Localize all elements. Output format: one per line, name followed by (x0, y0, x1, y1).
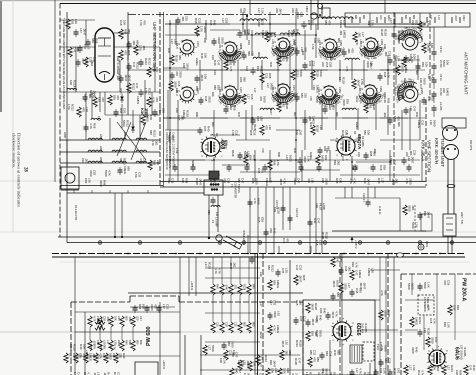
svg-text:5600: 5600 (422, 78, 426, 85)
svg-text:1.5K: 1.5K (293, 40, 297, 46)
svg-text:CHANNEL 2 DETENT POSITION.: CHANNEL 2 DETENT POSITION. (171, 132, 174, 169)
svg-text:82K: 82K (456, 305, 460, 310)
svg-text:470: 470 (92, 344, 96, 349)
svg-text:C47: C47 (413, 106, 417, 112)
svg-text:L30: L30 (274, 368, 278, 373)
svg-text:C82: C82 (338, 178, 342, 184)
svg-text:5600: 5600 (288, 155, 292, 162)
svg-text:R212: R212 (264, 355, 268, 362)
svg-text:R40: R40 (273, 228, 277, 234)
svg-text:4.7K: 4.7K (349, 178, 353, 184)
svg-text:C18: C18 (412, 150, 416, 156)
svg-text:.001: .001 (384, 51, 388, 57)
svg-text:1MEG: 1MEG (123, 166, 127, 175)
svg-text:220: 220 (275, 8, 279, 13)
svg-text:L30: L30 (383, 98, 387, 103)
svg-text:R128: R128 (185, 110, 189, 117)
svg-text:C18: C18 (315, 240, 319, 246)
svg-text:470: 470 (285, 238, 289, 243)
svg-text:C15: C15 (234, 130, 238, 136)
svg-text:3300: 3300 (397, 30, 401, 37)
svg-text:R40: R40 (79, 344, 83, 350)
svg-text:L30: L30 (319, 125, 323, 130)
svg-text:4.7K: 4.7K (426, 305, 430, 311)
svg-text:C15: C15 (213, 70, 217, 75)
svg-text:R212: R212 (152, 130, 156, 137)
svg-text:C15: C15 (308, 61, 312, 67)
svg-text:220: 220 (393, 56, 397, 61)
svg-text:5600: 5600 (423, 282, 427, 289)
svg-text:C82: C82 (272, 300, 276, 306)
svg-text:4.7K: 4.7K (107, 170, 111, 176)
svg-text:82K: 82K (158, 108, 162, 113)
svg-text:C47: C47 (419, 84, 423, 89)
svg-text:5600: 5600 (254, 178, 258, 185)
svg-text:R128: R128 (341, 77, 345, 84)
svg-text:R40: R40 (401, 30, 405, 36)
svg-text:6DE6: 6DE6 (355, 323, 361, 336)
svg-text:220: 220 (156, 160, 160, 165)
svg-text:10K: 10K (366, 130, 370, 135)
svg-text:5600: 5600 (145, 115, 149, 122)
svg-text:R128: R128 (318, 96, 322, 103)
svg-text:L30: L30 (409, 106, 413, 111)
svg-text:1MEG: 1MEG (195, 58, 199, 66)
svg-text:C18: C18 (245, 66, 249, 71)
svg-text:1.5K: 1.5K (412, 365, 416, 371)
svg-text:3300: 3300 (185, 63, 189, 70)
svg-text:L30: L30 (407, 156, 411, 161)
svg-text:VHF SECTION: VHF SECTION (426, 140, 432, 173)
svg-text:680: 680 (293, 112, 297, 117)
svg-text:C3 10: C3 10 (439, 74, 442, 81)
svg-text:82K: 82K (269, 360, 273, 365)
svg-text:82K: 82K (112, 95, 116, 100)
svg-text:C18: C18 (387, 51, 391, 57)
svg-text:1.5K: 1.5K (260, 8, 264, 14)
svg-text:PW 600: PW 600 (146, 326, 152, 346)
svg-text:L30: L30 (259, 272, 263, 277)
svg-text:L30: L30 (268, 125, 272, 130)
svg-text:C15: C15 (233, 322, 237, 327)
svg-text:C18: C18 (204, 96, 208, 102)
svg-text:C47: C47 (240, 178, 244, 184)
svg-text:470: 470 (261, 148, 265, 153)
svg-text:R40: R40 (430, 74, 434, 80)
svg-text:C15: C15 (137, 172, 141, 178)
svg-text:10K: 10K (432, 365, 436, 370)
svg-text:R128: R128 (276, 207, 280, 214)
svg-text:82K: 82K (310, 331, 314, 336)
svg-text:TRANS: TRANS (237, 184, 241, 193)
svg-text:R68: R68 (302, 275, 306, 281)
svg-text:C47: C47 (354, 270, 358, 276)
svg-text:1.5K: 1.5K (276, 160, 280, 166)
svg-text:R128: R128 (341, 130, 345, 137)
svg-text:680: 680 (415, 70, 419, 75)
svg-text:4.7K: 4.7K (229, 66, 233, 72)
svg-text:R40: R40 (377, 178, 381, 184)
svg-text:C82: C82 (123, 108, 127, 114)
svg-text:+300 V.: +300 V. (162, 360, 166, 370)
svg-text:.001: .001 (383, 112, 387, 118)
svg-text:R128: R128 (242, 284, 246, 291)
svg-text:L17: L17 (361, 32, 365, 37)
svg-text:L30: L30 (312, 85, 316, 90)
svg-text:C15: C15 (282, 238, 286, 244)
svg-text:.0047: .0047 (391, 178, 395, 186)
svg-text:OSC.: OSC. (119, 88, 123, 95)
svg-text:6AU6: 6AU6 (454, 347, 460, 360)
svg-text:L30: L30 (281, 102, 285, 107)
svg-text:470: 470 (142, 20, 146, 25)
svg-text:.001: .001 (373, 148, 377, 154)
svg-text:INTERLOCK: INTERLOCK (242, 230, 246, 245)
svg-text:C47: C47 (307, 20, 311, 26)
svg-text:680: 680 (337, 38, 341, 43)
svg-text:4.7K: 4.7K (285, 56, 289, 62)
svg-text:470: 470 (123, 50, 127, 55)
svg-text:680: 680 (242, 77, 246, 82)
svg-text:T3: T3 (230, 184, 234, 188)
svg-text:L30: L30 (242, 360, 246, 365)
svg-text:4.7K: 4.7K (112, 344, 116, 350)
svg-text:C15: C15 (318, 240, 322, 246)
svg-text:5600: 5600 (432, 120, 436, 127)
svg-text:R68: R68 (195, 112, 199, 117)
svg-text:5600: 5600 (318, 330, 322, 337)
svg-text:.001: .001 (232, 262, 236, 268)
svg-text:R128: R128 (417, 370, 421, 375)
svg-text:.0047: .0047 (298, 275, 302, 283)
svg-text:1.5K: 1.5K (138, 45, 142, 51)
svg-text:.0047: .0047 (200, 74, 204, 82)
svg-text:.001: .001 (132, 40, 136, 46)
svg-text:C15: C15 (257, 168, 261, 174)
svg-text:.001: .001 (180, 115, 184, 121)
svg-text:L17: L17 (221, 18, 225, 23)
svg-text:5600: 5600 (410, 283, 414, 290)
svg-text:82K: 82K (216, 85, 220, 90)
svg-text:L17: L17 (389, 18, 393, 23)
svg-text:680: 680 (384, 358, 388, 363)
svg-text:C47: C47 (234, 352, 238, 358)
svg-text:.0047: .0047 (198, 178, 202, 186)
svg-text:L30: L30 (284, 340, 288, 345)
svg-text:82K: 82K (256, 66, 260, 71)
svg-text:L17: L17 (408, 365, 412, 370)
svg-text:470: 470 (81, 107, 85, 112)
svg-text:C82: C82 (298, 130, 302, 136)
svg-text:C47: C47 (351, 165, 355, 171)
svg-text:6AF4 or6AF4A: 6AF4 or6AF4A (116, 56, 120, 80)
svg-text:1.5K: 1.5K (393, 116, 397, 122)
svg-text:680: 680 (288, 350, 292, 355)
svg-text:L17: L17 (355, 368, 359, 373)
svg-text:C15: C15 (260, 20, 264, 26)
svg-text:220: 220 (81, 158, 85, 163)
svg-text:5600: 5600 (108, 353, 112, 360)
svg-text:R68: R68 (93, 123, 97, 129)
svg-text:220: 220 (411, 20, 415, 25)
svg-text:.0047: .0047 (310, 303, 314, 311)
svg-text:L30: L30 (310, 178, 314, 183)
svg-text:470: 470 (231, 352, 235, 357)
svg-text:C18: C18 (88, 57, 92, 63)
svg-text:3300: 3300 (430, 337, 434, 344)
svg-text:C47: C47 (468, 365, 472, 371)
svg-text:ANT MATCHING UNIT: ANT MATCHING UNIT (464, 52, 469, 95)
svg-text:5600: 5600 (319, 70, 323, 77)
svg-text:.0047: .0047 (272, 360, 276, 368)
svg-text:L30: L30 (173, 39, 177, 44)
svg-text:C82: C82 (99, 344, 103, 350)
svg-text:.001: .001 (348, 266, 352, 272)
svg-text:.001: .001 (394, 178, 398, 184)
svg-text:3300: 3300 (303, 156, 307, 163)
svg-text:10K: 10K (455, 370, 459, 375)
svg-text:4.7K: 4.7K (345, 66, 349, 72)
svg-text:R40: R40 (415, 112, 419, 117)
svg-text:L17: L17 (380, 178, 384, 183)
svg-text:R212: R212 (450, 365, 454, 372)
svg-text:4.7K: 4.7K (352, 178, 356, 184)
svg-text:C15: C15 (177, 115, 181, 121)
svg-text:C82: C82 (397, 96, 401, 101)
svg-text:10K: 10K (286, 368, 290, 373)
svg-text:1.5K: 1.5K (222, 358, 226, 364)
svg-text:L841: L841 (99, 157, 103, 163)
svg-text:L17: L17 (259, 302, 263, 307)
svg-text:R40: R40 (293, 148, 297, 153)
svg-text:3300: 3300 (217, 37, 221, 44)
svg-text:R128: R128 (315, 330, 319, 337)
svg-text:R68: R68 (335, 178, 339, 184)
svg-text:470: 470 (155, 97, 159, 102)
svg-text:R212: R212 (136, 62, 140, 69)
svg-text:10K: 10K (204, 74, 208, 79)
svg-text:680: 680 (397, 122, 401, 127)
svg-text:C18: C18 (209, 20, 213, 26)
svg-text:C15: C15 (298, 265, 302, 271)
svg-text:L17: L17 (79, 28, 83, 33)
svg-text:220: 220 (397, 38, 401, 43)
svg-text:C47: C47 (392, 160, 396, 166)
svg-text:680: 680 (412, 15, 415, 20)
svg-text:R68: R68 (128, 340, 132, 345)
svg-text:5600: 5600 (383, 345, 387, 352)
svg-text:680: 680 (359, 288, 363, 293)
svg-text:C159: C159 (380, 39, 383, 45)
svg-text:R68: R68 (123, 29, 127, 35)
svg-text:4.7K: 4.7K (89, 123, 93, 129)
svg-text:C15: C15 (429, 318, 433, 324)
svg-text:10K: 10K (113, 316, 117, 321)
svg-text:L17: L17 (285, 155, 289, 160)
svg-text:R40: R40 (234, 368, 238, 374)
svg-text:C18: C18 (250, 94, 254, 100)
svg-text:KRK 40-E/H: KRK 40-E/H (433, 138, 439, 165)
svg-text:3300: 3300 (423, 305, 427, 312)
svg-text:.0047: .0047 (356, 79, 360, 87)
svg-text:R40: R40 (309, 122, 313, 127)
svg-text:3300: 3300 (324, 178, 328, 185)
svg-text:.001: .001 (181, 16, 185, 22)
svg-text:10K: 10K (419, 78, 423, 83)
svg-text:LAMP: LAMP (322, 203, 326, 210)
svg-text:R40: R40 (322, 308, 326, 314)
svg-text:.001: .001 (411, 205, 415, 211)
svg-text:1.5K: 1.5K (426, 21, 430, 27)
svg-text:4.7K: 4.7K (437, 15, 440, 20)
svg-text:L808: L808 (63, 132, 67, 138)
svg-text:L17: L17 (446, 365, 450, 370)
svg-text:R212: R212 (296, 12, 300, 19)
svg-text:R212: R212 (260, 66, 264, 73)
svg-text:* REPLACE R804 AND R805 WITH T: * REPLACE R804 AND R805 WITH THE SAME VA… (62, 18, 66, 110)
svg-text:.001: .001 (347, 48, 351, 54)
svg-text:680: 680 (294, 8, 298, 13)
svg-text:470: 470 (431, 96, 435, 101)
svg-text:10K: 10K (203, 53, 207, 58)
svg-text:R40: R40 (355, 40, 359, 45)
svg-text:R212: R212 (462, 15, 465, 21)
svg-text:C47: C47 (135, 83, 139, 89)
svg-text:R68: R68 (458, 370, 462, 375)
svg-text:4.7K: 4.7K (239, 44, 243, 50)
svg-text:3300: 3300 (383, 92, 387, 98)
svg-text:L17: L17 (209, 178, 213, 183)
svg-text:L30: L30 (87, 178, 91, 183)
svg-text:82K: 82K (272, 280, 276, 285)
svg-text:R128: R128 (207, 262, 211, 269)
svg-text:.0047: .0047 (311, 318, 315, 326)
svg-text:L30: L30 (328, 105, 332, 110)
svg-text:2ND PIX: 2ND PIX (361, 323, 365, 333)
svg-text:R128: R128 (387, 310, 391, 317)
svg-text:R40: R40 (403, 78, 407, 83)
svg-text:1MEG: 1MEG (309, 152, 313, 160)
svg-text:C82: C82 (203, 38, 207, 43)
svg-text:C18: C18 (119, 20, 123, 26)
svg-text:82K: 82K (423, 211, 427, 216)
svg-text:R40: R40 (207, 126, 211, 132)
svg-text:R40: R40 (363, 178, 367, 184)
svg-text:1MEG: 1MEG (276, 325, 280, 334)
svg-text:R128: R128 (321, 232, 325, 239)
svg-text:L17: L17 (257, 8, 261, 13)
svg-text:R128: R128 (174, 55, 178, 62)
svg-text:C159: C159 (420, 88, 423, 94)
svg-text:10K: 10K (181, 178, 185, 183)
svg-text:.0047: .0047 (128, 74, 132, 82)
svg-text:.001: .001 (339, 30, 343, 36)
svg-text:R68: R68 (249, 130, 253, 136)
svg-text:C30: C30 (207, 210, 210, 215)
svg-text:L5 300: L5 300 (439, 88, 442, 96)
svg-text:1MEG: 1MEG (315, 85, 319, 94)
svg-text:470: 470 (332, 105, 336, 110)
svg-text:R212: R212 (295, 70, 299, 77)
svg-text:470: 470 (175, 71, 179, 76)
svg-text:.001: .001 (142, 45, 146, 51)
svg-text:.001: .001 (154, 140, 158, 146)
svg-text:680: 680 (242, 322, 246, 327)
svg-text:4.7K: 4.7K (354, 262, 358, 268)
svg-text:L17: L17 (68, 353, 72, 358)
svg-text:3300: 3300 (221, 37, 225, 44)
svg-text:680: 680 (135, 340, 139, 345)
svg-text:C82: C82 (167, 178, 171, 184)
svg-text:R68: R68 (369, 151, 373, 157)
svg-text:3300: 3300 (408, 178, 412, 185)
svg-text:3300: 3300 (340, 292, 344, 299)
svg-text:.0047: .0047 (92, 90, 96, 98)
svg-text:C82: C82 (228, 60, 232, 66)
svg-text:5600: 5600 (257, 20, 261, 27)
svg-text:3300: 3300 (411, 347, 415, 354)
svg-text:C82: C82 (319, 308, 323, 314)
svg-text:1.5K: 1.5K (389, 156, 393, 162)
svg-text:82K: 82K (351, 262, 355, 267)
svg-text:.001: .001 (301, 50, 305, 56)
svg-text:R212: R212 (259, 332, 263, 339)
svg-text:82K: 82K (333, 160, 337, 165)
svg-text:C47: C47 (117, 316, 121, 321)
svg-text:.001: .001 (84, 158, 88, 164)
svg-text:V1: V1 (353, 131, 357, 135)
svg-text:R68: R68 (127, 50, 131, 56)
svg-text:C18: C18 (224, 140, 228, 146)
svg-text:R40: R40 (427, 96, 431, 102)
svg-text:470: 470 (221, 140, 225, 145)
svg-text:5600: 5600 (315, 96, 319, 103)
svg-text:82K: 82K (311, 20, 315, 25)
svg-text:.0047: .0047 (369, 62, 373, 69)
svg-text:3300: 3300 (392, 18, 396, 25)
svg-text:4.7K: 4.7K (420, 370, 424, 375)
svg-text:.0047: .0047 (331, 311, 335, 319)
svg-text:.001: .001 (233, 284, 237, 290)
svg-text:C47: C47 (296, 178, 300, 184)
svg-text:C47: C47 (383, 44, 387, 49)
svg-text:470: 470 (264, 125, 268, 130)
svg-text:L807: L807 (99, 146, 103, 152)
svg-text:C15: C15 (257, 217, 261, 223)
svg-text:5600: 5600 (299, 70, 303, 77)
svg-text:R68: R68 (272, 160, 276, 166)
svg-text:.001: .001 (357, 32, 361, 38)
svg-text:C18: C18 (379, 165, 383, 171)
svg-text:10K: 10K (430, 43, 434, 48)
svg-text:680: 680 (324, 20, 328, 25)
svg-text:680: 680 (213, 85, 217, 90)
svg-text:R212: R212 (287, 30, 291, 37)
svg-text:C15: C15 (281, 268, 285, 274)
svg-text:4.7K: 4.7K (432, 318, 436, 324)
svg-text:R68: R68 (194, 18, 198, 24)
svg-text:1MEG: 1MEG (261, 30, 265, 39)
svg-text:C18: C18 (252, 130, 256, 136)
svg-text:R40: R40 (237, 112, 241, 117)
svg-text:L17: L17 (170, 39, 174, 44)
svg-text:1.5K: 1.5K (446, 322, 450, 328)
svg-text:4.7K: 4.7K (282, 178, 286, 184)
svg-text:PW 200-A: PW 200-A (461, 278, 467, 301)
svg-text:1.5K: 1.5K (370, 20, 374, 26)
svg-text:C15: C15 (357, 152, 361, 157)
svg-text:470: 470 (351, 48, 355, 53)
